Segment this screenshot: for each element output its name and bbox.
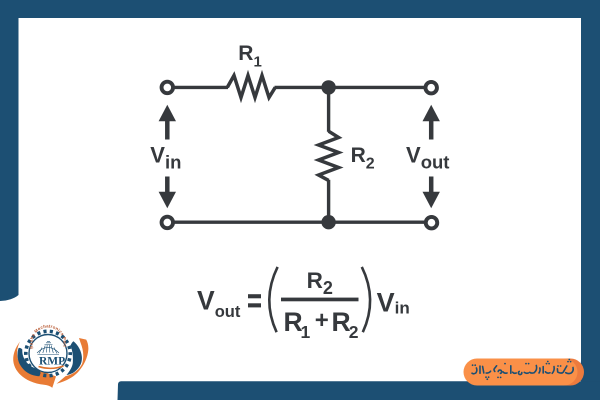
terminal bottom-left (open) bbox=[162, 217, 174, 229]
frame top bar bbox=[0, 0, 600, 18]
banner back pill (darker orange) bbox=[467, 359, 584, 386]
banner pill bbox=[464, 359, 578, 386]
formula equals sign bbox=[248, 294, 261, 298]
svg-text:1: 1 bbox=[301, 322, 311, 342]
resistor R2 (vertical zigzag) bbox=[319, 131, 339, 180]
wire: middle vertical bottom segment bbox=[327, 180, 330, 222]
terminal bottom-right (open) bbox=[426, 217, 438, 229]
svg-text:R: R bbox=[332, 307, 351, 337]
Vout down arrow bbox=[429, 177, 434, 198]
wire: middle vertical top segment bbox=[327, 87, 330, 131]
word mechatronic bbox=[494, 366, 537, 375]
logo orange swoosh left piece with tail bbox=[13, 342, 56, 388]
wire: top rail left segment bbox=[167, 86, 228, 89]
logo RMP group bbox=[13, 323, 88, 387]
wire: top rail right segment bbox=[275, 86, 432, 89]
formula right parenthesis bbox=[362, 267, 370, 332]
logo machinery sketch bbox=[37, 341, 59, 354]
resistor R1 (zigzag) bbox=[227, 76, 275, 98]
frame right bar bbox=[581, 0, 600, 400]
logo arc text bbox=[33, 327, 64, 348]
word sherkat bbox=[557, 366, 573, 374]
word part bbox=[472, 366, 491, 374]
svg-text:2: 2 bbox=[349, 322, 359, 342]
frame left bar (ends above logo) bbox=[0, 0, 19, 301]
banner Persian text (approximated strokes) bbox=[472, 366, 573, 375]
terminal top-left (open) bbox=[162, 82, 174, 94]
logo blue crescent left bbox=[17, 348, 40, 376]
word rasha bbox=[539, 367, 554, 374]
formula left parenthesis bbox=[269, 267, 277, 332]
node junction bottom bbox=[321, 215, 335, 229]
frame inner fillet bottom-right bbox=[561, 361, 581, 381]
formula fraction bar bbox=[281, 298, 359, 302]
banner text dots bbox=[472, 359, 572, 381]
node junction top bbox=[321, 80, 335, 94]
logo gear disc bbox=[29, 335, 67, 373]
terminal top-right (open) bbox=[425, 82, 437, 94]
wire: bottom rail bbox=[167, 220, 431, 223]
svg-text:+: + bbox=[315, 307, 329, 334]
Vin up arrow bbox=[165, 119, 170, 140]
logo blue crescent right bbox=[67, 341, 82, 375]
logo gear teeth bbox=[26, 331, 70, 375]
logo underline arc bbox=[39, 366, 64, 368]
frame bottom bar (starts right of logo) bbox=[118, 381, 600, 400]
Vout up arrow bbox=[429, 119, 434, 140]
svg-text:RMP: RMP bbox=[39, 356, 65, 368]
Vin down arrow bbox=[165, 177, 170, 198]
logo orange swoosh right piece bbox=[57, 338, 89, 384]
